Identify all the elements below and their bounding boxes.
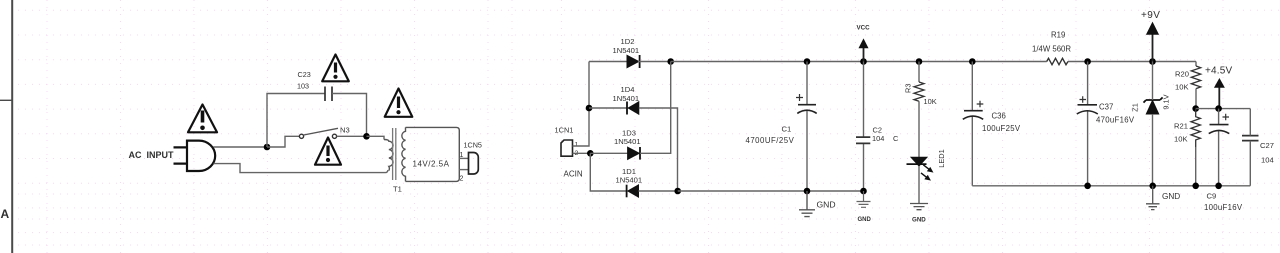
- junction C1 top: [804, 58, 811, 65]
- svg-text:C1: C1: [782, 125, 792, 134]
- sheet border line: [11, 0, 13, 253]
- wire 1D2 anode: [589, 61, 627, 63]
- transformer T1 secondary box: [406, 127, 460, 181]
- svg-text:C27: C27: [1260, 141, 1274, 150]
- label C9: [1207, 192, 1217, 201]
- label C23: [298, 70, 311, 79]
- junction R3 top: [916, 58, 923, 65]
- diode 1D3: [628, 147, 640, 160]
- zener diode Z1: [1144, 97, 1163, 114]
- wire 1D3 cathode up to node E: [640, 62, 671, 154]
- plus sign of C37: [1080, 96, 1087, 103]
- junction node G: [1192, 105, 1199, 112]
- junction node A: [264, 144, 271, 151]
- wire 1CN1 pin1 to left bus: [573, 62, 590, 147]
- value 1N5401 of 1D2: [613, 46, 640, 55]
- svg-text:10K: 10K: [1175, 83, 1189, 92]
- border tick: [0, 100, 12, 101]
- wire node A step to switch: [267, 136, 299, 147]
- svg-text:A: A: [1, 207, 10, 221]
- pin 1 wire of box: [459, 157, 468, 159]
- wire C36: [971, 62, 973, 186]
- svg-text:1N5401: 1N5401: [613, 46, 640, 55]
- svg-text:R3: R3: [904, 84, 913, 93]
- value 1N5401 of 1D4: [613, 94, 640, 103]
- warning triangle W4 above transformer: [385, 89, 413, 117]
- warning triangle W2 above plug: [188, 105, 217, 133]
- wire ground bottom rail: [678, 190, 864, 192]
- svg-text:14V/2.5A: 14V/2.5A: [413, 160, 450, 169]
- junction node B: [363, 133, 370, 140]
- zone letter A: [1, 207, 10, 221]
- junction node F: [674, 188, 681, 195]
- label GND small: [858, 217, 872, 223]
- wire 1D3 anode from node C: [590, 152, 627, 154]
- switch N3: [299, 128, 338, 138]
- svg-text:100uF16V: 100uF16V: [1204, 203, 1243, 212]
- pin number 1: [460, 152, 464, 159]
- plus sign of C36: [977, 101, 984, 108]
- svg-text:10K: 10K: [924, 97, 937, 106]
- svg-text:T1: T1: [393, 185, 402, 194]
- svg-text:C36: C36: [992, 112, 1006, 121]
- svg-text:104: 104: [872, 134, 884, 143]
- svg-text:VCC: VCC: [857, 25, 871, 32]
- wire R20 top: [1195, 62, 1197, 67]
- junction C9 top: [1215, 105, 1222, 112]
- svg-text:GND: GND: [1162, 192, 1180, 201]
- junction C36 top: [969, 58, 976, 65]
- junction R21 bottom: [1192, 183, 1199, 190]
- wire C1: [806, 62, 808, 192]
- value 104 C: [872, 134, 899, 143]
- svg-text:R19: R19: [1051, 31, 1065, 40]
- value 1/4W 560R: [1032, 45, 1071, 54]
- value 10K of R21: [1174, 135, 1188, 144]
- svg-text:100uF25V: 100uF25V: [982, 124, 1021, 133]
- wire 1D4 cathode from node D: [589, 107, 627, 109]
- resistor R21: [1191, 109, 1200, 147]
- svg-text:1D4: 1D4: [621, 85, 635, 94]
- svg-text:1N5401: 1N5401: [616, 176, 643, 185]
- label 1CN5: [464, 141, 482, 150]
- label R19: [1051, 31, 1065, 40]
- power +9V: [1141, 10, 1160, 62]
- diode 1D2: [627, 55, 640, 68]
- label Z1: [1131, 103, 1140, 112]
- resistor R20: [1191, 66, 1200, 89]
- ground below C2: [857, 191, 871, 207]
- label C27: [1260, 141, 1274, 150]
- value 1N5401 of 1D3: [614, 137, 641, 146]
- svg-text:C: C: [893, 134, 899, 143]
- svg-text:LED1: LED1: [937, 149, 946, 168]
- junction VCC: [860, 58, 867, 65]
- wire R21 bottom: [1195, 147, 1197, 186]
- label T1: [393, 185, 402, 194]
- svg-text:1: 1: [575, 142, 579, 149]
- ground below LED1: [910, 204, 928, 210]
- wire C9: [1218, 109, 1220, 186]
- junction C1 bottom: [804, 188, 811, 195]
- junction node D on left bus: [586, 105, 593, 112]
- capacitor C1: [797, 105, 816, 114]
- svg-text:1CN1: 1CN1: [555, 125, 574, 134]
- value 100uF25V: [982, 124, 1021, 133]
- label C1: [782, 125, 792, 134]
- value 103: [297, 82, 309, 91]
- label GND below LED1: [912, 217, 926, 224]
- value 10K of R3: [924, 97, 937, 106]
- transformer T1 core: [393, 128, 396, 180]
- label 1D2: [621, 37, 635, 46]
- capacitor C23: [325, 87, 332, 102]
- wire 1D2 cathode to node E: [638, 61, 671, 63]
- label 1CN1: [555, 125, 574, 134]
- wire C37: [1087, 62, 1089, 186]
- warning triangle W1 above C23: [322, 55, 349, 82]
- svg-text:1: 1: [460, 152, 464, 159]
- wire 1D4 anode down to bottom rail: [639, 108, 678, 191]
- wire 1D1 anode to node F: [639, 190, 678, 192]
- junction +9V rail: [1149, 58, 1156, 65]
- wire switch to node B: [337, 135, 367, 137]
- label 14V/2.5A: [413, 160, 450, 169]
- label C2: [873, 126, 882, 135]
- pin 2 wire of box: [459, 169, 468, 171]
- transformer T1 primary winding: [384, 140, 393, 171]
- label C36: [992, 112, 1006, 121]
- svg-text:1N5401: 1N5401: [613, 94, 640, 103]
- svg-text:AC INPUT: AC INPUT: [129, 150, 175, 160]
- wire R3 top: [918, 62, 920, 83]
- svg-text:1N5401: 1N5401: [614, 137, 641, 146]
- plus sign of C9: [1223, 114, 1230, 121]
- svg-text:1D2: 1D2: [621, 37, 635, 46]
- capacitor C2: [856, 137, 870, 143]
- svg-text:103: 103: [297, 82, 309, 91]
- svg-text:C23: C23: [298, 70, 311, 79]
- junction node E: [667, 58, 674, 65]
- svg-text:GND: GND: [858, 217, 872, 223]
- wire LED1 to ground: [918, 166, 920, 203]
- diode 1D1: [627, 185, 639, 198]
- label ACIN: [564, 170, 583, 179]
- svg-text:R21: R21: [1174, 122, 1188, 131]
- power +4.5V: [1205, 66, 1233, 109]
- svg-text:9.1V: 9.1V: [1162, 94, 1171, 109]
- wire plug bottom to transformer primary bottom: [214, 164, 389, 173]
- LED LED1: [907, 157, 933, 180]
- label GND right: [1162, 192, 1180, 201]
- svg-text:+9V: +9V: [1141, 10, 1160, 21]
- label 1D3: [622, 129, 636, 138]
- warning triangle W3 below switch: [315, 138, 341, 165]
- junction C37 top: [1084, 58, 1091, 65]
- capacitor C36: [963, 111, 983, 120]
- value 100uF16V: [1204, 203, 1243, 212]
- wire node C down to 1D1: [590, 153, 626, 191]
- wire Z1: [1152, 62, 1154, 186]
- label 1D4: [621, 85, 635, 94]
- value 10K of R20: [1175, 83, 1189, 92]
- wire R20 to node G: [1195, 89, 1197, 109]
- value 4700UF/25V: [746, 136, 795, 145]
- wire C27: [1249, 109, 1251, 186]
- svg-text:N3: N3: [340, 126, 350, 135]
- junction node C: [587, 150, 594, 157]
- svg-text:1CN5: 1CN5: [464, 141, 482, 150]
- wire mid rail to C27: [1196, 108, 1251, 110]
- svg-text:R20: R20: [1175, 70, 1189, 79]
- svg-text:C37: C37: [1099, 103, 1113, 112]
- label 1D1: [622, 167, 636, 176]
- plus sign of C1: [796, 94, 803, 101]
- ground below C1: [799, 191, 815, 217]
- svg-text:GND: GND: [817, 200, 836, 210]
- wire C2: [863, 62, 865, 192]
- wire regulator bottom rail: [972, 185, 1250, 187]
- diode 1D4: [627, 102, 639, 115]
- value 9.1V: [1162, 94, 1171, 109]
- label GND: [817, 200, 836, 210]
- label N3: [340, 126, 350, 135]
- capacitor C27: [1242, 136, 1259, 141]
- svg-text:1/4W 560R: 1/4W 560R: [1032, 45, 1071, 54]
- label R20: [1175, 70, 1189, 79]
- wire VCC top rail: [671, 61, 1196, 63]
- svg-text:470uF16V: 470uF16V: [1096, 116, 1135, 125]
- junction Z1 bottom: [1149, 183, 1156, 190]
- wire C23 right down to node B: [332, 94, 367, 137]
- resistor R3: [914, 82, 924, 101]
- wire node B to transformer primary: [367, 136, 385, 139]
- AC INPUT label: [129, 150, 175, 160]
- wire R3 to LED1: [918, 101, 920, 157]
- connector 1CN1: [561, 140, 573, 156]
- svg-text:10K: 10K: [1174, 135, 1188, 144]
- svg-text:Z1: Z1: [1131, 103, 1140, 112]
- transformer T1 secondary winding: [402, 127, 406, 181]
- AC plug P1: [174, 141, 216, 171]
- label C37: [1099, 103, 1113, 112]
- junction C37 bottom: [1084, 183, 1091, 190]
- ground right section: [1146, 186, 1160, 210]
- svg-text:C9: C9: [1207, 192, 1217, 201]
- pin number 2 of 1CN1: [575, 150, 579, 157]
- value 470uF16V: [1096, 116, 1135, 125]
- wire plug top to node: [214, 146, 268, 148]
- label R21: [1174, 122, 1188, 131]
- svg-text:GND: GND: [912, 217, 926, 224]
- connector 1CN5: [469, 153, 479, 175]
- resistor R19: [1047, 58, 1068, 64]
- svg-text:4700UF/25V: 4700UF/25V: [746, 136, 795, 145]
- value 104 of C27: [1261, 156, 1274, 165]
- junction C9 bottom: [1215, 183, 1222, 190]
- label LED1: [937, 149, 946, 168]
- label R3: [904, 84, 913, 93]
- power VCC: [857, 25, 871, 62]
- wire 1CN1 pin2 to node C: [573, 152, 591, 154]
- capacitor C37: [1077, 105, 1098, 114]
- pin number 2: [460, 176, 464, 183]
- pin number 1 of 1CN1: [575, 142, 579, 149]
- svg-text:ACIN: ACIN: [564, 170, 583, 179]
- wire node A up to C23 loop: [267, 94, 325, 148]
- svg-text:2: 2: [460, 176, 464, 183]
- junction C2 bottom: [860, 188, 867, 195]
- svg-text:+4.5V: +4.5V: [1205, 66, 1233, 77]
- value 1N5401 of 1D1: [616, 176, 643, 185]
- capacitor C9: [1209, 125, 1229, 134]
- svg-text:104: 104: [1261, 156, 1274, 165]
